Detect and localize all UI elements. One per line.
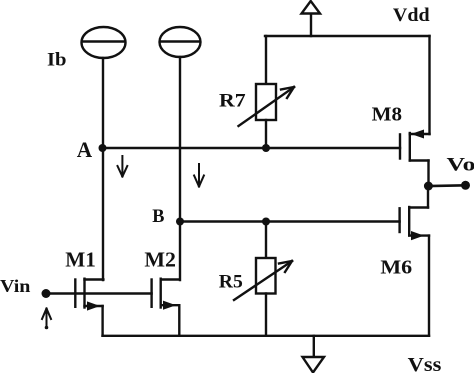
wire node A rail to M8 gate bbox=[103, 147, 401, 149]
transistor M8 (PMOS) bbox=[400, 130, 430, 187]
junction dot R5 top on B rail bbox=[262, 218, 270, 226]
wire from I1 to node A bbox=[102, 58, 104, 148]
svg-text:Vin: Vin bbox=[0, 276, 30, 296]
wire Vo stub bbox=[428, 184, 465, 187]
svg-text:B: B bbox=[152, 206, 165, 227]
Vin terminal dot bbox=[42, 289, 51, 298]
svg-text:M1: M1 bbox=[65, 247, 96, 271]
transistor M6 (NMOS) bbox=[400, 207, 429, 336]
junction dot R7 bottom on A rail bbox=[262, 144, 270, 152]
svg-text:Vss: Vss bbox=[408, 354, 442, 373]
transistor M1 (NMOS) bbox=[75, 279, 103, 336]
transistor M2 (NMOS) bbox=[152, 279, 180, 336]
svg-text:Vo: Vo bbox=[447, 154, 474, 175]
top Vdd rail bbox=[265, 35, 430, 37]
node Vo bbox=[424, 182, 433, 191]
svg-text:M8: M8 bbox=[372, 104, 402, 126]
Vdd supply symbol bbox=[302, 1, 321, 36]
wire Vin to gates of M1 and M2 bbox=[46, 292, 152, 294]
svg-text:M6: M6 bbox=[380, 256, 412, 278]
wire Vdd rail down to M8 source bbox=[428, 36, 430, 134]
node A bbox=[99, 144, 107, 152]
wire node A down to M1 drain bbox=[102, 148, 104, 280]
current arrow at node A branch bbox=[118, 156, 128, 177]
resistor R7 (variable) bbox=[239, 36, 295, 148]
wire Vo down to M6 drain bbox=[427, 186, 429, 208]
svg-text:R5: R5 bbox=[219, 271, 243, 292]
resistor R5 (variable) bbox=[234, 222, 292, 336]
current source I1 (Ib) bbox=[82, 27, 126, 58]
current source I2 bbox=[160, 27, 201, 57]
wire node B rail to M6 gate bbox=[180, 220, 400, 222]
Vin arrow (up) bbox=[42, 309, 51, 330]
svg-text:Ib: Ib bbox=[47, 49, 67, 70]
svg-text:R7: R7 bbox=[219, 90, 246, 111]
Vss ground symbol bbox=[303, 336, 325, 373]
svg-text:Vdd: Vdd bbox=[393, 5, 430, 26]
wire from I2 down through A-rail to node B and M2 drain bbox=[179, 57, 181, 280]
svg-text:A: A bbox=[77, 137, 93, 162]
Vo terminal dot bbox=[461, 181, 470, 190]
svg-text:M2: M2 bbox=[144, 247, 176, 271]
current arrow at node B branch bbox=[194, 164, 204, 187]
bottom Vss rail bbox=[103, 335, 430, 337]
node B bbox=[176, 218, 184, 226]
